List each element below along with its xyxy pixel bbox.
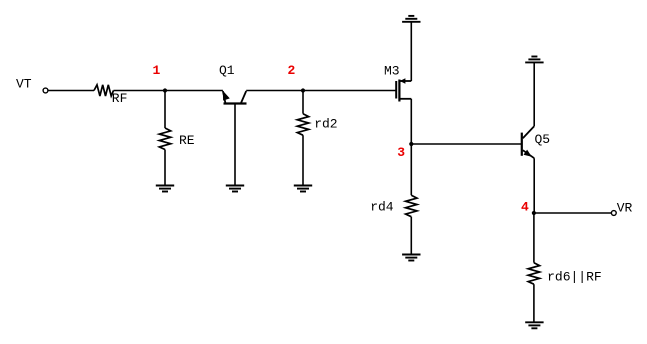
wire node 2 to M3 gate — [303, 90, 396, 92]
wire VT to RF — [48, 90, 94, 92]
wire node 4 to VR — [534, 212, 612, 214]
wire node 2 to rd2 — [302, 91, 304, 114]
wire node 3 to Q5 base — [411, 143, 521, 145]
terminal VR — [611, 200, 632, 215]
supply rail (above Q5) — [525, 57, 543, 63]
wire RF to node 1 — [114, 90, 166, 92]
svg-text:Q1: Q1 — [219, 63, 235, 78]
wire rd4 to ground — [410, 217, 412, 255]
ground (Q1 base) — [226, 186, 244, 192]
svg-text:RF: RF — [112, 91, 128, 106]
svg-text:rd4: rd4 — [370, 199, 394, 214]
ground (rd6||RF) — [525, 322, 543, 328]
wire node 1 to Q1 emitter — [165, 90, 223, 92]
ground (rd4) — [402, 255, 420, 261]
wire Q5 collector to supply — [533, 63, 535, 126]
wire node 3 to rd4 — [410, 144, 412, 195]
resistor rd2 — [297, 114, 337, 136]
svg-text:VT: VT — [16, 77, 32, 92]
svg-text:1: 1 — [153, 63, 161, 78]
wire node 1 to RE — [164, 91, 166, 129]
node 1 — [153, 63, 168, 93]
wire Q1 collector to node 2 — [246, 90, 303, 92]
wire Q1 base to ground — [234, 104, 236, 186]
svg-text:M3: M3 — [384, 63, 400, 78]
wire M3 source to node 3 — [410, 99, 412, 144]
terminal VT — [16, 77, 48, 93]
wire rd6||RF to ground — [533, 284, 535, 322]
svg-text:2: 2 — [288, 63, 296, 78]
resistor rd4 — [370, 195, 417, 217]
transistor Q5 — [522, 126, 550, 158]
supply rail (above M3) — [402, 16, 420, 22]
resistor RF — [94, 85, 127, 106]
svg-text:rd2: rd2 — [314, 117, 337, 132]
svg-text:RE: RE — [179, 133, 195, 148]
wire M3 drain to supply — [410, 22, 412, 81]
transistor Q1 — [219, 63, 247, 104]
resistor RE — [159, 128, 195, 150]
svg-text:Q5: Q5 — [535, 132, 551, 147]
svg-text:3: 3 — [397, 145, 405, 160]
wire node 4 to rd6||RF — [533, 213, 535, 263]
node 3 — [397, 142, 413, 160]
wire Q5 emitter to node 4 — [533, 158, 535, 213]
wire rd2 to ground — [302, 135, 304, 185]
ground (rd2) — [294, 186, 312, 192]
node 4 — [521, 200, 536, 216]
svg-text:4: 4 — [521, 200, 529, 215]
svg-text:VR: VR — [617, 200, 633, 215]
MOSFET M3 — [384, 63, 411, 101]
wire RE to ground — [164, 150, 166, 186]
ground (RE) — [156, 186, 174, 192]
node 2 — [288, 63, 306, 93]
svg-text:rd6||RF: rd6||RF — [547, 269, 602, 284]
resistor rd6||RF — [528, 263, 602, 285]
